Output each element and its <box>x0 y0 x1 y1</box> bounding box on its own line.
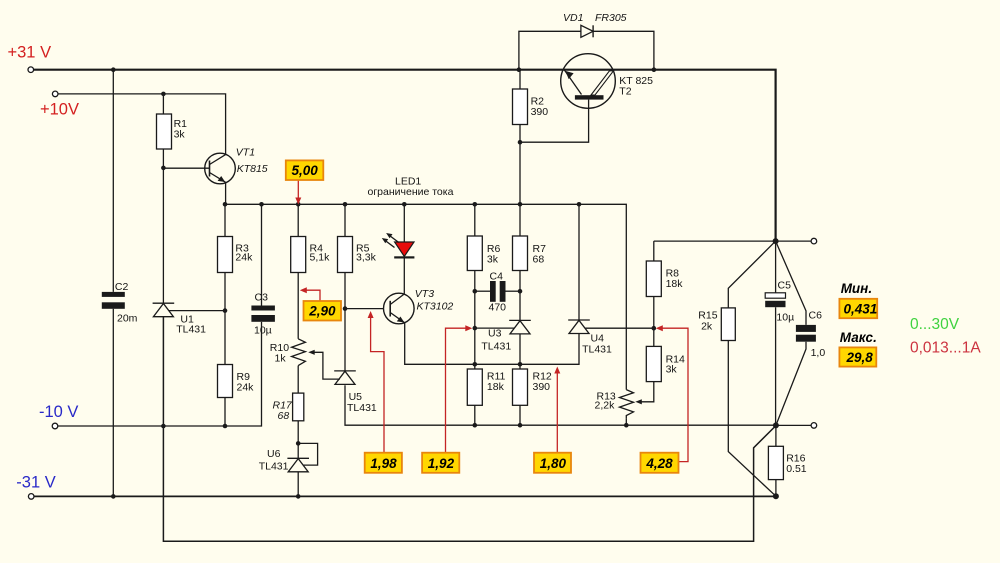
probe wire 2,90 <box>303 290 320 301</box>
wire R13 bottom <box>625 418 627 425</box>
wire R6 bottom to R11 <box>474 271 476 370</box>
svg-text:Макс.: Макс. <box>840 330 877 345</box>
svg-text:C2: C2 <box>115 281 129 293</box>
wire +10V line <box>58 94 226 155</box>
svg-text:2,90: 2,90 <box>308 304 336 319</box>
node dot emitter/U3 anode <box>518 362 523 367</box>
node dot output minus <box>773 422 779 428</box>
wire VT3 emitter node <box>405 323 579 364</box>
resistor R15 <box>698 308 735 341</box>
wire -10V left rail <box>58 322 262 426</box>
capacitor C5 <box>765 280 794 324</box>
node dot bus/R7 <box>518 202 523 207</box>
probe wire 1,80 <box>556 370 558 453</box>
readout box 29,8 <box>839 330 876 367</box>
wire U3 anode to R12 <box>519 334 521 369</box>
node dot -10V/R12 <box>518 423 523 428</box>
wire R4 to R10 <box>297 273 299 339</box>
wire U5 cathode <box>344 309 346 371</box>
probe arrow 1,92 right <box>465 325 472 331</box>
resistor R14 <box>646 346 685 381</box>
wire LED top <box>403 204 405 242</box>
svg-text:0,431: 0,431 <box>844 302 878 317</box>
wire R7 top <box>519 204 521 236</box>
wire -31V rail <box>34 495 776 497</box>
wire R8 to R14 <box>653 297 655 347</box>
svg-text:18k: 18k <box>487 381 505 393</box>
TL431 U4 <box>568 320 612 356</box>
capacitor C4 <box>489 271 507 314</box>
TL431 U5 <box>334 371 377 414</box>
svg-text:1,92: 1,92 <box>428 456 455 471</box>
svg-text:1k: 1k <box>275 353 287 365</box>
terminal output plus <box>811 238 817 244</box>
wire R5 to VT3 base <box>345 273 384 309</box>
node dot U1 ref/R9 <box>223 308 228 313</box>
node dot +31V/VD1-R2 <box>517 67 522 72</box>
svg-text:5,00: 5,00 <box>292 163 319 178</box>
diode VD1 <box>563 12 627 37</box>
readout box 0,431 <box>839 281 877 318</box>
wire R3 top <box>224 204 226 236</box>
wire main bus <box>225 204 626 389</box>
svg-text:20m: 20m <box>117 313 138 325</box>
node dot emitter/R11 <box>473 362 478 367</box>
svg-text:3,3k: 3,3k <box>356 252 377 264</box>
svg-text:68: 68 <box>278 410 290 422</box>
resistor R17 <box>273 393 304 422</box>
svg-text:FR305: FR305 <box>595 12 627 24</box>
node dot -10V/R11 <box>473 423 478 428</box>
svg-text:2k: 2k <box>701 321 713 333</box>
svg-text:T2: T2 <box>619 86 631 98</box>
resistor R5 <box>338 237 377 273</box>
svg-text:TL431: TL431 <box>481 341 511 353</box>
TL431 U1 <box>153 303 207 335</box>
node dot -31V/U6 <box>296 494 301 499</box>
node dot bus/U4 <box>577 202 582 207</box>
wire output minus lead <box>776 424 811 426</box>
svg-text:VD1: VD1 <box>563 12 583 24</box>
node dot bus/R5 <box>343 202 348 207</box>
svg-text:10µ: 10µ <box>776 312 794 324</box>
svg-text:1,80: 1,80 <box>540 456 567 471</box>
potentiometer R13 <box>595 390 642 419</box>
wire R9 bottom <box>224 397 226 426</box>
resistor R3 <box>218 237 254 273</box>
svg-text:TL431: TL431 <box>176 324 206 336</box>
resistor R2 <box>513 89 549 125</box>
potentiometer R10 <box>270 339 315 366</box>
probe arrow 1,98 up <box>368 311 374 318</box>
svg-text:0.51: 0.51 <box>786 463 807 475</box>
node dot bus/R4 <box>296 202 301 207</box>
wire +31V rail thick <box>33 70 775 241</box>
svg-text:C4: C4 <box>490 271 504 283</box>
probe wire 5,00 <box>297 180 299 200</box>
svg-text:390: 390 <box>533 381 551 393</box>
readout box 2,90 <box>304 301 342 321</box>
wire VT1 base <box>163 167 209 169</box>
svg-text:TL431: TL431 <box>582 344 612 356</box>
wire VD1 loop <box>519 31 654 69</box>
node dot bus/R6 <box>473 202 478 207</box>
TL431 U3 <box>481 320 530 352</box>
svg-text:3k: 3k <box>174 129 186 141</box>
node dot +10V/R1 <box>161 92 166 97</box>
wire R3 to R9 <box>224 273 226 365</box>
svg-text:3k: 3k <box>487 254 499 266</box>
readout box 4,28 <box>641 453 679 473</box>
resistor R6 <box>467 236 500 271</box>
wire C2 bottom <box>112 309 114 497</box>
wire U1 ref <box>169 310 225 312</box>
svg-text:470: 470 <box>489 302 507 314</box>
wire LED to VT3 collector <box>403 258 405 294</box>
wire U6 anode <box>297 472 299 496</box>
wire U5 anode to -10V right rail <box>345 385 776 425</box>
svg-text:VT1: VT1 <box>236 147 255 159</box>
svg-text:ограничение тока: ограничение тока <box>368 186 454 198</box>
wire U1 anode down to sense line <box>163 317 776 541</box>
wire C4 right <box>506 290 521 292</box>
node dot bus/C3 <box>259 202 264 207</box>
wire R16 bottom <box>775 480 777 497</box>
svg-text:KT815: KT815 <box>237 163 268 175</box>
node dot C4 right <box>518 289 523 294</box>
LED LED1 <box>368 176 454 259</box>
svg-text:+10V: +10V <box>40 101 79 119</box>
wire R5 top <box>344 204 346 236</box>
wire R10 to R17 <box>297 366 299 394</box>
svg-text:1,98: 1,98 <box>370 456 397 471</box>
terminal output minus <box>811 423 817 429</box>
wire R10 wiper <box>314 352 340 379</box>
svg-text:18k: 18k <box>666 278 684 290</box>
wire R2 bottom to bus <box>519 125 521 205</box>
node dot -31V/C2 <box>111 494 116 499</box>
resistor R8 <box>646 261 683 297</box>
wire U6 ref loop <box>298 443 317 465</box>
svg-text:0...30V: 0...30V <box>910 316 960 333</box>
resistor R9 <box>218 365 255 398</box>
svg-text:TL431: TL431 <box>259 461 289 473</box>
svg-text:C5: C5 <box>778 280 792 292</box>
probe arrow 1,80 up <box>554 367 560 374</box>
svg-text:29,8: 29,8 <box>846 350 874 365</box>
svg-text:+31 V: +31 V <box>8 44 52 62</box>
probe arrow 4,28 left <box>656 325 663 331</box>
svg-text:24k: 24k <box>237 382 255 394</box>
svg-text:0,013...1А: 0,013...1А <box>910 340 981 357</box>
capacitor C6 <box>796 310 825 360</box>
wire R7 to U3 <box>519 271 521 321</box>
wire U4 cathode <box>578 204 580 320</box>
wire U3 ref <box>475 327 515 329</box>
wire R14 bottom to R13 wiper <box>640 382 654 402</box>
transistor VT3 <box>384 288 454 324</box>
wire R4 top <box>297 204 299 236</box>
svg-text:-31 V: -31 V <box>16 474 55 492</box>
svg-text:U3: U3 <box>488 328 502 340</box>
node dot C4 left <box>473 289 478 294</box>
wire U4 ref <box>585 327 654 329</box>
resistor R16 <box>768 446 806 479</box>
node dot +31V/C2 <box>111 67 116 72</box>
wire R15 branch <box>728 241 776 496</box>
wire R1 bottom to U1 <box>162 149 164 303</box>
node dot R17/U6 <box>296 441 301 446</box>
wire R6 top <box>474 204 476 236</box>
svg-text:-10 V: -10 V <box>39 403 78 421</box>
wire VT1 emitter to bus <box>225 182 227 204</box>
node dot bus/LED <box>402 202 407 207</box>
resistor R11 <box>467 369 505 405</box>
readout box 1,80 <box>534 453 571 473</box>
node dot -10V/U1 column <box>161 424 166 429</box>
wire R11 bottom <box>474 405 476 425</box>
wire R17 to U6 <box>297 421 299 459</box>
svg-text:1,0: 1,0 <box>811 347 826 359</box>
wire C3 top <box>261 204 263 305</box>
svg-text:3k: 3k <box>666 364 678 376</box>
terminal -10V <box>52 423 58 429</box>
svg-text:TL431: TL431 <box>347 402 377 414</box>
wire R12 bottom <box>519 405 521 425</box>
readout box 1,92 <box>422 453 459 473</box>
wire C5 branch <box>775 241 777 425</box>
transistor T2 KT825 <box>561 54 653 109</box>
terminal +31V <box>28 67 34 73</box>
svg-text:Мин.: Мин. <box>841 281 872 296</box>
svg-text:VT3: VT3 <box>415 288 434 300</box>
readout box 1,98 <box>365 453 402 473</box>
probe wire 1,98 <box>371 315 384 453</box>
node dot R2/T2 base <box>518 140 523 145</box>
transistor VT1 <box>205 147 268 184</box>
capacitor C3 <box>251 292 275 337</box>
node dot R1/base <box>161 166 166 171</box>
probe wire 4,28 <box>660 328 689 461</box>
wire R8 top <box>653 241 655 261</box>
terminal -31V <box>28 494 34 500</box>
svg-text:4,28: 4,28 <box>645 456 673 471</box>
wire output plus lead <box>776 240 811 242</box>
svg-text:KT3102: KT3102 <box>417 301 454 313</box>
node dot output plus <box>773 238 779 244</box>
TL431 U6 <box>259 448 309 473</box>
svg-text:390: 390 <box>531 106 549 118</box>
node dot +31V/VD1 right <box>652 67 657 72</box>
wire T2 base <box>520 100 589 143</box>
wire C6 branch <box>776 241 806 425</box>
resistor R7 <box>513 236 547 271</box>
node dot -10V/R13 <box>624 423 629 428</box>
wire R1 top <box>162 94 164 114</box>
node dot -10V/R9 <box>223 424 228 429</box>
probe wire 1,92 <box>446 328 469 453</box>
wire R16 top <box>775 425 777 446</box>
svg-text:2,2k: 2,2k <box>595 400 616 412</box>
svg-text:5,1k: 5,1k <box>310 252 331 264</box>
wire C4 left <box>475 290 490 292</box>
node dot U3 ref <box>473 326 478 331</box>
node dot U5 top <box>343 306 348 311</box>
svg-text:10µ: 10µ <box>254 325 272 337</box>
node dot U4 ref/R8/R14 <box>652 326 657 331</box>
svg-text:24k: 24k <box>235 252 253 264</box>
svg-text:68: 68 <box>533 254 545 266</box>
resistor R12 <box>513 369 552 405</box>
svg-text:C6: C6 <box>809 310 823 322</box>
wire C2 top <box>112 70 114 292</box>
readout box 5,00 <box>286 160 324 180</box>
capacitor C2 <box>102 281 138 325</box>
wire R2 top <box>519 70 521 89</box>
resistor R4 <box>291 237 330 273</box>
node dot -31V/R16 <box>773 493 779 499</box>
node dot bus/VT1 <box>223 202 228 207</box>
resistor R1 <box>157 114 188 149</box>
probe arrow 5,00 down <box>295 198 301 205</box>
svg-text:C3: C3 <box>255 292 269 304</box>
svg-text:U6: U6 <box>267 448 281 460</box>
probe arrow 2,90 left <box>300 287 307 293</box>
wire output node horizontal <box>654 240 776 242</box>
terminal +10V <box>52 91 58 97</box>
